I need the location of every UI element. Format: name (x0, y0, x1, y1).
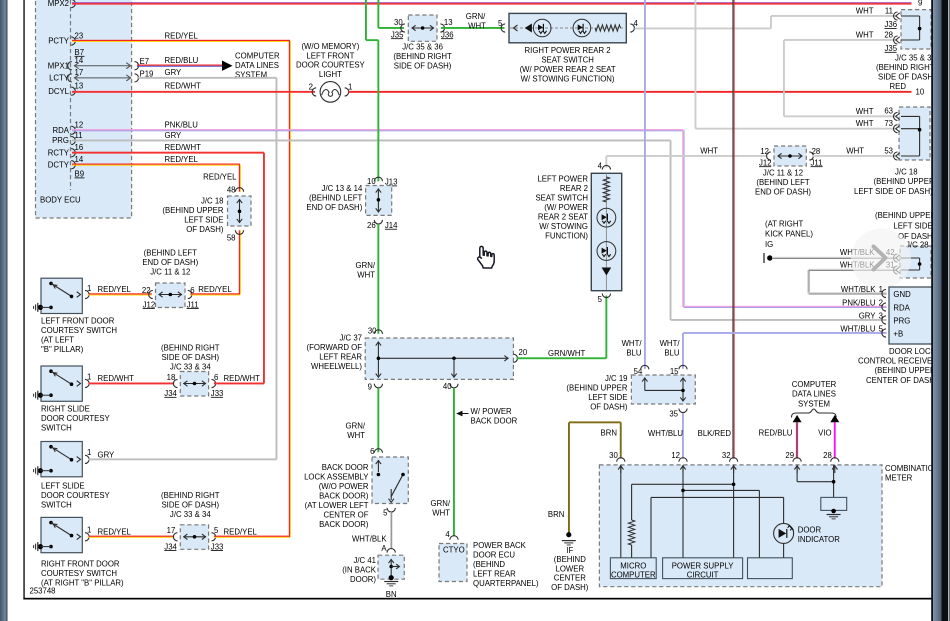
svg-text:(BEHIND UPPER: (BEHIND UPPER (875, 366, 936, 375)
svg-text:253748: 253748 (30, 587, 56, 596)
svg-text:BACK DOOR: BACK DOOR (471, 417, 518, 426)
svg-text:LCTY: LCTY (49, 74, 70, 83)
svg-text:73: 73 (884, 119, 893, 128)
svg-text:BRN: BRN (601, 428, 617, 437)
svg-text:SWITCH: SWITCH (41, 500, 72, 509)
svg-text:WHT/BLU: WHT/BLU (840, 325, 875, 334)
svg-text:KICK PANEL): KICK PANEL) (765, 230, 813, 239)
svg-text:5: 5 (383, 508, 388, 517)
svg-text:WHT: WHT (856, 31, 874, 40)
svg-text:28: 28 (812, 147, 821, 156)
svg-text:PRG: PRG (893, 317, 910, 326)
svg-text:CENTER OF: CENTER OF (323, 511, 368, 520)
svg-text:VIO: VIO (818, 429, 831, 438)
svg-text:J36: J36 (441, 30, 454, 39)
svg-text:12: 12 (760, 147, 769, 156)
svg-text:3: 3 (879, 312, 883, 321)
svg-text:(BEHIND UPPER: (BEHIND UPPER (874, 177, 935, 186)
svg-text:RED/BLU: RED/BLU (165, 56, 199, 65)
svg-text:END OF DASH): END OF DASH) (755, 188, 811, 197)
svg-text:COMPUTER: COMPUTER (235, 52, 280, 61)
svg-text:A: A (381, 544, 387, 553)
svg-text:DCTY: DCTY (48, 160, 70, 169)
svg-text:CENTER OF DASH): CENTER OF DASH) (866, 376, 938, 385)
svg-text:CTYO: CTYO (443, 546, 465, 555)
svg-text:RED/YEL: RED/YEL (165, 155, 199, 164)
svg-text:J/C 33 & 34: J/C 33 & 34 (170, 363, 211, 372)
svg-text:LOWER: LOWER (556, 564, 585, 573)
svg-text:(W/ POWER: (W/ POWER (544, 203, 588, 212)
svg-text:GRY: GRY (165, 68, 183, 77)
svg-text:12: 12 (75, 121, 84, 130)
svg-text:28: 28 (884, 31, 893, 40)
svg-text:RIGHT SLIDE: RIGHT SLIDE (41, 404, 90, 413)
svg-text:(W/ POWER REAR 2 SEAT: (W/ POWER REAR 2 SEAT (520, 65, 616, 74)
svg-text:J/C 35 & 36: J/C 35 & 36 (402, 42, 443, 51)
svg-text:METER: METER (885, 474, 913, 483)
svg-text:J/C 11 & 12: J/C 11 & 12 (150, 268, 190, 277)
svg-text:J/C 35 & 36: J/C 35 & 36 (895, 54, 936, 63)
svg-text:1: 1 (348, 82, 352, 91)
svg-text:LEFT REAR: LEFT REAR (473, 570, 516, 579)
svg-text:(AT RIGHT: (AT RIGHT (765, 220, 803, 229)
svg-text:SIDE OF DASH): SIDE OF DASH) (161, 501, 219, 510)
svg-text:23: 23 (75, 31, 84, 40)
svg-text:(AT LOWER LEFT: (AT LOWER LEFT (305, 501, 369, 510)
svg-text:1: 1 (87, 373, 91, 382)
svg-text:BLU: BLU (664, 348, 680, 357)
svg-text:GND: GND (893, 290, 911, 299)
svg-text:13: 13 (444, 18, 453, 27)
svg-text:RED/YEL: RED/YEL (98, 285, 132, 294)
svg-text:LEFT SLIDE: LEFT SLIDE (41, 481, 85, 490)
svg-text:(BEHIND: (BEHIND (473, 560, 505, 569)
svg-text:BLU: BLU (626, 348, 642, 357)
svg-text:CIRCUIT: CIRCUIT (687, 571, 719, 580)
svg-text:9: 9 (368, 383, 372, 392)
svg-text:RED/YEL: RED/YEL (98, 527, 132, 536)
svg-text:LEFT REAR: LEFT REAR (319, 353, 362, 362)
svg-text:2: 2 (309, 82, 313, 91)
svg-text:LEFT FRONT: LEFT FRONT (306, 51, 354, 60)
svg-text:FUNCTION): FUNCTION) (545, 232, 588, 241)
svg-text:35: 35 (669, 409, 678, 418)
svg-text:16: 16 (75, 143, 84, 152)
svg-text:(AT LEFT: (AT LEFT (41, 335, 74, 344)
svg-text:LEFT SIDE: LEFT SIDE (893, 221, 932, 230)
svg-text:RDA: RDA (53, 126, 70, 135)
svg-text:WHT: WHT (856, 107, 874, 116)
svg-text:RED/BLU: RED/BLU (759, 429, 793, 438)
svg-text:J/C 11 & 12: J/C 11 & 12 (763, 169, 803, 178)
svg-text:DOOR COURTESY: DOOR COURTESY (41, 491, 111, 500)
svg-text:J/C 33 & 34: J/C 33 & 34 (170, 510, 211, 519)
svg-text:WHT: WHT (357, 271, 375, 280)
svg-text:1: 1 (87, 448, 91, 457)
svg-text:29: 29 (785, 451, 794, 460)
svg-text:MPX2: MPX2 (48, 0, 69, 8)
svg-text:WHT/BLU: WHT/BLU (648, 429, 683, 438)
svg-text:PRG: PRG (52, 136, 69, 145)
svg-text:WHT: WHT (700, 146, 718, 155)
svg-text:CENTER: CENTER (554, 574, 586, 583)
svg-text:POWER SUPPLY: POWER SUPPLY (672, 561, 735, 570)
svg-text:(BEHIND UPPER: (BEHIND UPPER (566, 384, 627, 393)
svg-text:WHT/BLK: WHT/BLK (352, 535, 387, 544)
svg-text:17: 17 (75, 68, 84, 77)
svg-text:RED/YEL: RED/YEL (198, 285, 232, 294)
svg-text:48: 48 (227, 186, 236, 195)
svg-text:LEFT FRONT DOOR: LEFT FRONT DOOR (41, 316, 115, 325)
svg-text:9: 9 (918, 0, 922, 8)
svg-text:SIDE OF DASH): SIDE OF DASH) (161, 353, 219, 362)
svg-text:BACK DOOR: BACK DOOR (322, 463, 369, 472)
svg-text:DATA LINES: DATA LINES (792, 390, 836, 399)
svg-text:J/C 18: J/C 18 (895, 168, 918, 177)
svg-text:LEFT POWER: LEFT POWER (537, 175, 588, 184)
svg-text:J33: J33 (211, 542, 224, 551)
svg-text:BACK DOOR): BACK DOOR) (319, 520, 369, 529)
svg-text:10: 10 (916, 87, 925, 96)
svg-text:LEFT SIDE: LEFT SIDE (588, 393, 627, 402)
svg-text:J/C 19: J/C 19 (605, 374, 628, 383)
svg-text:(BEHIND LEFT: (BEHIND LEFT (309, 193, 363, 202)
svg-text:RED/YEL: RED/YEL (165, 31, 199, 40)
svg-text:J/C 41: J/C 41 (353, 556, 376, 565)
svg-text:END OF DASH): END OF DASH) (142, 258, 198, 267)
svg-text:RED: RED (890, 82, 907, 91)
svg-text:DOOR LOCK: DOOR LOCK (889, 347, 937, 356)
svg-text:GRN/: GRN/ (346, 421, 366, 430)
svg-text:REAR 2: REAR 2 (560, 184, 588, 193)
svg-text:W/ POWER: W/ POWER (471, 407, 513, 416)
svg-text:WHT/: WHT/ (660, 339, 681, 348)
svg-text:26: 26 (367, 221, 376, 230)
svg-text:SEAT SWITCH: SEAT SWITCH (535, 194, 588, 203)
svg-text:J/C 28: J/C 28 (906, 241, 929, 250)
svg-text:GRY: GRY (98, 451, 116, 460)
svg-text:RDA: RDA (893, 304, 910, 313)
svg-text:1: 1 (879, 285, 883, 294)
svg-text:5: 5 (214, 526, 219, 535)
svg-text:(BEHIND RIGHT: (BEHIND RIGHT (161, 491, 220, 500)
svg-text:5: 5 (598, 295, 603, 304)
svg-text:SWITCH: SWITCH (41, 423, 72, 432)
svg-text:LEFT SIDE OF DASH): LEFT SIDE OF DASH) (854, 187, 933, 196)
svg-text:53: 53 (884, 146, 893, 155)
svg-text:RED/WHT: RED/WHT (98, 374, 135, 383)
svg-text:(BEHIND RIGHT: (BEHIND RIGHT (393, 52, 452, 61)
svg-text:DOOR): DOOR) (350, 575, 376, 584)
svg-text:RED/YEL: RED/YEL (224, 527, 258, 536)
svg-text:SIDE OF DASH): SIDE OF DASH) (394, 61, 452, 70)
svg-text:W/ STOWING FUNCTION): W/ STOWING FUNCTION) (521, 75, 615, 84)
svg-text:30: 30 (609, 451, 618, 460)
svg-text:11: 11 (75, 131, 83, 140)
svg-text:RIGHT POWER REAR 2: RIGHT POWER REAR 2 (525, 46, 611, 55)
svg-text:BN: BN (386, 590, 397, 599)
svg-text:2: 2 (879, 299, 883, 308)
svg-text:IF: IF (566, 546, 573, 555)
svg-text:REAR 2 SEAT: REAR 2 SEAT (538, 213, 588, 222)
svg-text:PNK/BLU: PNK/BLU (165, 121, 199, 130)
svg-text:DOOR: DOOR (798, 525, 822, 534)
svg-text:OF DASH): OF DASH) (186, 225, 224, 234)
svg-text:SIDE OF DASH): SIDE OF DASH) (878, 73, 936, 82)
svg-text:GRY: GRY (859, 312, 877, 321)
svg-text:5: 5 (879, 325, 884, 334)
svg-text:QUARTERPANEL): QUARTERPANEL) (473, 579, 539, 588)
svg-text:WHT/: WHT/ (622, 339, 643, 348)
svg-text:WHT: WHT (347, 431, 365, 440)
svg-text:(BEHIND UPPER: (BEHIND UPPER (162, 206, 223, 215)
svg-text:IG: IG (765, 240, 773, 249)
svg-text:RED/YEL: RED/YEL (203, 173, 237, 182)
svg-text:(BEHIND RIGHT: (BEHIND RIGHT (161, 344, 220, 353)
svg-text:PNK/BLU: PNK/BLU (842, 299, 876, 308)
svg-text:WHT: WHT (856, 119, 874, 128)
svg-text:WHEELWELL): WHEELWELL) (311, 362, 362, 371)
svg-text:MPX1: MPX1 (48, 61, 69, 70)
svg-text:GRN/: GRN/ (466, 12, 486, 21)
svg-text:J35: J35 (391, 30, 404, 39)
svg-text:SEAT SWITCH: SEAT SWITCH (541, 56, 594, 65)
svg-text:DCYL: DCYL (48, 87, 69, 96)
svg-text:COMPUTER: COMPUTER (611, 571, 656, 580)
svg-text:(BEHIND LEFT: (BEHIND LEFT (144, 249, 198, 258)
svg-text:J/C 18: J/C 18 (201, 197, 224, 206)
svg-text:OF DASH): OF DASH) (551, 583, 589, 592)
svg-text:DOOR COURTESY: DOOR COURTESY (296, 61, 366, 70)
svg-text:LIGHT: LIGHT (319, 70, 342, 79)
svg-text:+B: +B (893, 330, 903, 339)
svg-text:END OF DASH): END OF DASH) (306, 203, 362, 212)
svg-text:J/C 37: J/C 37 (339, 334, 362, 343)
svg-text:GRY: GRY (165, 131, 183, 140)
svg-text:W/ STOWING: W/ STOWING (539, 222, 588, 231)
svg-text:(W/O POWER: (W/O POWER (319, 482, 369, 491)
svg-text:5: 5 (498, 19, 503, 28)
svg-text:J34: J34 (164, 389, 177, 398)
svg-text:MICRO: MICRO (620, 561, 646, 570)
svg-text:BRN: BRN (548, 510, 564, 519)
svg-text:14: 14 (75, 155, 84, 164)
svg-text:28: 28 (823, 451, 832, 460)
svg-text:DOOR COURTESY: DOOR COURTESY (41, 414, 111, 423)
svg-text:WHT: WHT (468, 21, 486, 30)
svg-text:CONTROL RECEIVER: CONTROL RECEIVER (858, 357, 938, 366)
svg-text:RED/WHT: RED/WHT (165, 82, 202, 91)
svg-text:(FORWARD OF: (FORWARD OF (307, 343, 363, 352)
svg-text:DATA LINES: DATA LINES (235, 61, 279, 70)
svg-text:GRN/: GRN/ (356, 261, 376, 270)
svg-text:RED/WHT: RED/WHT (224, 374, 261, 383)
svg-text:"B" PILLAR): "B" PILLAR) (41, 345, 84, 354)
svg-text:INDICATOR: INDICATOR (798, 535, 841, 544)
svg-text:(BEHIND UPPER: (BEHIND UPPER (875, 211, 936, 220)
svg-text:6: 6 (370, 447, 374, 456)
svg-text:4: 4 (634, 19, 639, 28)
svg-text:RED/WHT: RED/WHT (165, 143, 202, 152)
svg-text:J12: J12 (143, 300, 156, 309)
svg-text:BODY ECU: BODY ECU (40, 196, 81, 205)
svg-text:63: 63 (884, 107, 893, 116)
svg-text:WHT: WHT (856, 7, 874, 16)
svg-text:1: 1 (87, 526, 91, 535)
svg-text:DOOR ECU: DOOR ECU (473, 551, 515, 560)
svg-text:BACK DOOR): BACK DOOR) (319, 492, 369, 501)
svg-text:J33: J33 (211, 389, 224, 398)
svg-text:COURTESY SWITCH: COURTESY SWITCH (41, 326, 117, 335)
svg-text:SYSTEM: SYSTEM (798, 399, 830, 408)
svg-text:B7: B7 (75, 48, 85, 57)
svg-text:J14: J14 (385, 221, 398, 230)
svg-text:J36: J36 (885, 20, 898, 29)
svg-text:J34: J34 (164, 542, 177, 551)
svg-text:WHT/BLK: WHT/BLK (841, 285, 876, 294)
svg-text:LEFT SIDE: LEFT SIDE (184, 216, 223, 225)
svg-text:RIGHT FRONT DOOR: RIGHT FRONT DOOR (41, 559, 120, 568)
svg-text:J11: J11 (811, 158, 823, 167)
svg-text:J/C 13 & 14: J/C 13 & 14 (322, 184, 363, 193)
svg-text:WHT: WHT (846, 146, 864, 155)
svg-text:6: 6 (214, 373, 218, 382)
svg-text:J12: J12 (759, 158, 772, 167)
svg-text:POWER BACK: POWER BACK (473, 541, 527, 550)
svg-text:COURTESY SWITCH: COURTESY SWITCH (41, 569, 117, 578)
svg-text:COMPUTER: COMPUTER (792, 380, 837, 389)
svg-text:40: 40 (443, 382, 452, 391)
svg-text:1: 1 (87, 284, 91, 293)
svg-text:J35: J35 (885, 44, 898, 53)
svg-text:RED/BLU: RED/BLU (170, 0, 204, 2)
svg-text:PCTY: PCTY (48, 37, 70, 46)
svg-text:J11: J11 (187, 300, 199, 309)
svg-text:GRN/WHT: GRN/WHT (548, 349, 585, 358)
svg-text:(BEHIND LEFT: (BEHIND LEFT (756, 178, 810, 187)
svg-text:B9: B9 (75, 170, 85, 179)
svg-text:BLK/RED: BLK/RED (698, 429, 732, 438)
svg-text:13: 13 (75, 82, 84, 91)
svg-text:OF DASH): OF DASH) (590, 403, 628, 412)
svg-text:WHT: WHT (432, 509, 450, 518)
svg-text:32: 32 (722, 451, 731, 460)
svg-text:GRN/: GRN/ (431, 499, 451, 508)
svg-text:(BEHIND: (BEHIND (554, 555, 586, 564)
svg-text:14: 14 (75, 56, 84, 65)
svg-text:4: 4 (445, 530, 450, 539)
svg-text:20: 20 (519, 348, 528, 357)
svg-text:58: 58 (227, 234, 236, 243)
svg-text:(BEHIND RIGHT: (BEHIND RIGHT (876, 63, 935, 72)
svg-text:11: 11 (885, 7, 893, 16)
svg-text:LOCK ASSEMBLY: LOCK ASSEMBLY (304, 473, 369, 482)
svg-text:(W/O MEMORY): (W/O MEMORY) (301, 42, 359, 51)
svg-text:(IN BACK: (IN BACK (342, 566, 377, 575)
svg-text:RCTY: RCTY (48, 148, 70, 157)
svg-text:12: 12 (671, 451, 680, 460)
